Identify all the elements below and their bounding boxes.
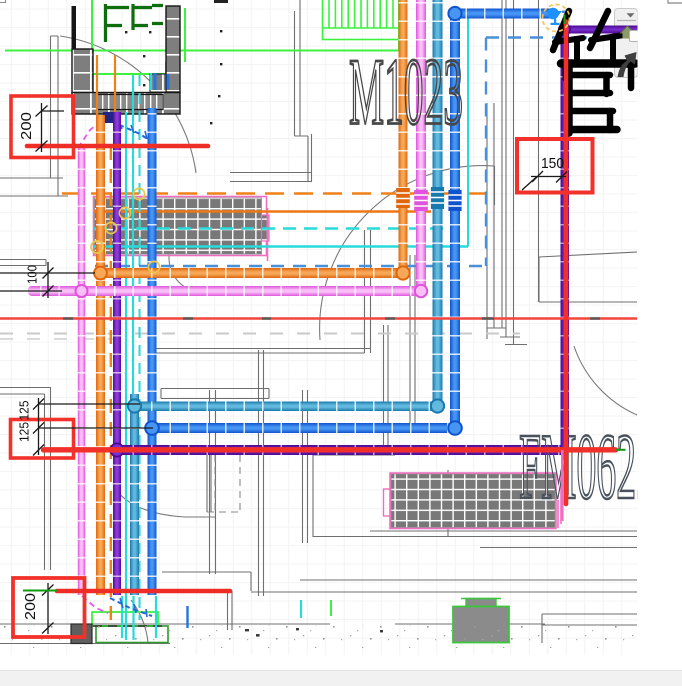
lime room boundary top-left bbox=[92, 0, 166, 92]
dimension 150 right bbox=[522, 177, 566, 191]
svg-text:FM0622: FM0622 bbox=[519, 415, 656, 519]
svg-text:125: 125 bbox=[16, 422, 31, 442]
blue dashed window line L bbox=[95, 38, 636, 267]
red main line over FM pipe bbox=[44, 447, 616, 452]
hatched wall right column bbox=[166, 6, 180, 92]
pink vertical right of upper hatch bbox=[267, 208, 269, 261]
door arc center bbox=[320, 166, 494, 340]
navy cap on purple riser bbox=[103, 112, 113, 123]
thin red line across bbox=[0, 317, 637, 319]
wall top-left corner tick bbox=[0, 0, 6, 3]
dark green F fixtures bbox=[104, 4, 163, 42]
lime long horizontal line bbox=[5, 50, 399, 52]
wall big rectangle right bbox=[539, 252, 637, 302]
wall small room rect center bbox=[161, 389, 269, 399]
red highlight rect 3 (125 125) bbox=[11, 420, 74, 459]
black heavy wall stub top-left bbox=[72, 6, 77, 94]
green tick at end of red main line bbox=[616, 449, 626, 451]
pipe orange L: horizontal run bbox=[100, 268, 404, 278]
bottom gray status bar bbox=[0, 671, 682, 686]
gray dashed line mid bbox=[0, 333, 520, 335]
pipe couplings on risers bbox=[396, 187, 461, 211]
cyan L riser right bbox=[468, 13, 545, 247]
pipe orange L: vertical riser right bbox=[399, 0, 408, 274]
green equipment box bottom center bbox=[453, 599, 509, 643]
hatched wall inner corner block bbox=[150, 74, 166, 92]
wall center double vertical bbox=[365, 230, 371, 353]
cyan stubs bottom bbox=[122, 596, 301, 640]
teal elbow and tee bbox=[431, 399, 444, 412]
dimension 100 left bbox=[0, 262, 95, 298]
magenta tail below junction bbox=[561, 450, 564, 521]
blue dashed connector bottom bbox=[110, 598, 152, 616]
magenta dashed connector bottom bbox=[82, 596, 108, 613]
equipment hatch rect upper (AHU) bbox=[94, 197, 270, 256]
wall horizontal pair center bbox=[150, 349, 371, 354]
dimension 125 125 left bbox=[39, 398, 154, 455]
cyan risers in bundle bbox=[125, 112, 127, 640]
svg-text:M1023: M1023 bbox=[349, 39, 463, 145]
pipe purple vertical right bbox=[561, 25, 570, 450]
pink tail below lower hatch bbox=[558, 470, 561, 528]
wall bottom band lines bbox=[0, 624, 545, 644]
dark green box bottom left bbox=[96, 626, 168, 643]
pipe orange vertical bbox=[96, 115, 105, 595]
wall verticals center-low bbox=[384, 255, 416, 455]
floating palette corner top-right bbox=[668, 0, 682, 3]
red thick segment top bbox=[27, 144, 208, 149]
navbar separator bbox=[617, 20, 636, 22]
pipe pink L: horizontal run with left stub bbox=[28, 286, 421, 296]
navbar dropdown triangle bbox=[627, 13, 635, 17]
cyan dashed service line bbox=[94, 227, 443, 229]
dark dashes on thin red line bbox=[63, 317, 600, 320]
pipe purple horizontal (FM main) bbox=[115, 445, 569, 455]
navbar white page box bbox=[630, 31, 639, 42]
dark block bottom-left bbox=[71, 624, 92, 644]
hatched wall left column bbox=[72, 49, 93, 93]
pipe blue top horizontal bbox=[455, 9, 556, 19]
pipe teal L: horizontal run bbox=[134, 402, 438, 412]
lime riser ticks bottom bbox=[330, 600, 332, 616]
wall horizontal left low bbox=[162, 572, 251, 591]
pipe teal L: vertical riser right bbox=[433, 0, 443, 406]
lime vertical at comb bbox=[398, 0, 400, 51]
door arc bottom small bbox=[131, 600, 148, 643]
svg-text:200: 200 bbox=[23, 593, 39, 620]
wall steps right middle bbox=[487, 328, 527, 345]
svg-text:150: 150 bbox=[541, 155, 564, 172]
wall double vertical top middle bbox=[295, 0, 312, 182]
orange dashed service line bbox=[62, 192, 485, 195]
door arc top-left bbox=[60, 36, 196, 173]
wall L-corner left mid bbox=[0, 178, 68, 196]
red highlight rect 2 (150) bbox=[517, 139, 593, 193]
red highlight rect 1 (200 top-left) bbox=[11, 96, 74, 158]
svg-text:100: 100 bbox=[24, 265, 39, 284]
red highlight rect 4 (200 bottom) bbox=[13, 578, 85, 637]
yellow selection circle top bbox=[543, 5, 570, 32]
wall left bottom corner bbox=[0, 388, 51, 571]
orange dashed riser in bundle bbox=[110, 146, 112, 624]
pipe blue L: horizontal run bbox=[152, 423, 456, 433]
pipe blue vertical bbox=[148, 108, 157, 595]
equipment hatch rect lower right bbox=[384, 473, 557, 529]
pipe blue L: vertical riser right bbox=[450, 12, 460, 428]
dimension 200 top-left bbox=[42, 103, 65, 152]
wall verticals right of M1023 bbox=[487, 0, 514, 345]
cyan solid service line bbox=[94, 245, 468, 247]
lime equipment bottom left bbox=[92, 612, 158, 626]
lime comb fixture top bbox=[323, 0, 400, 40]
orange riser stubs top bbox=[97, 55, 115, 116]
dimension 200 bottom-left bbox=[47, 583, 49, 634]
wall double vertical left of top red box bbox=[51, 36, 59, 196]
wall horizontals bottom right band bbox=[313, 531, 637, 548]
black dots top room bbox=[125, 0, 228, 124]
wall horizontals above stipple bbox=[251, 580, 637, 592]
red thick segment bottom bbox=[57, 589, 230, 594]
navbar home icon bbox=[621, 26, 635, 33]
pipe teal vertical (lower half) bbox=[130, 394, 139, 595]
pipe purple top horizontal bbox=[563, 26, 638, 34]
green tick at red riser top bbox=[563, 15, 565, 25]
blue riser stub top wall bbox=[155, 73, 168, 90]
svg-text:200: 200 bbox=[19, 112, 35, 140]
purple elbows and tee bbox=[559, 24, 570, 35]
wall L bottom right bbox=[542, 614, 637, 643]
svg-text:125: 125 bbox=[16, 401, 31, 421]
hatched wall bottom row bbox=[72, 93, 180, 115]
navigation bar panel background bbox=[615, 9, 638, 78]
orange thin service line bbox=[94, 210, 431, 212]
green hidden riser behind purple pipe bbox=[117, 390, 119, 460]
orange elbow and tee bbox=[396, 266, 409, 279]
yellow circles near risers bbox=[91, 188, 160, 272]
pink elbow and tee bbox=[415, 285, 427, 297]
door arc at equipment left bbox=[169, 222, 205, 293]
blue dashed connector top bbox=[104, 117, 152, 142]
pipe pink L: vertical riser right bbox=[416, 0, 426, 291]
wall horizontal pair below top middle bbox=[230, 173, 311, 182]
stipple concrete band bottom bbox=[0, 625, 637, 648]
magenta dashed connector top bbox=[78, 113, 117, 148]
wall horizontal slanted to right bbox=[494, 166, 496, 205]
chinese character GUAN (drawn strokes) bbox=[553, 11, 635, 133]
blue elbows and tee bbox=[448, 421, 462, 435]
pipe purple vertical bbox=[113, 112, 121, 595]
door arc bottom-left pipes bbox=[116, 490, 215, 517]
small dark marks bottom center bbox=[245, 628, 383, 637]
navbar wheel arrow icon bbox=[618, 52, 637, 77]
door arc right bbox=[574, 346, 637, 415]
lime vertical tick right of wall bbox=[184, 8, 186, 62]
wall left edge corner mid bbox=[0, 260, 46, 266]
blue riser stub bottom bbox=[186, 606, 188, 628]
right white margin bbox=[638, 0, 682, 686]
dashed hidden rect center bbox=[207, 455, 240, 512]
wall vertical x=538 bbox=[538, 0, 540, 302]
door sill striped block bbox=[97, 95, 163, 110]
wall room rect bottom center bbox=[313, 455, 448, 537]
black dashed line on lime box bbox=[93, 625, 168, 627]
blue pipe end node with drop symbol bbox=[547, 8, 559, 20]
pipe pink vertical bbox=[78, 146, 85, 595]
top-right corner palette box bbox=[668, 0, 682, 3]
red vertical riser line bbox=[564, 22, 569, 505]
wall verticals bottom-center bbox=[210, 350, 308, 596]
wall small verticals bottom center bbox=[228, 591, 233, 630]
